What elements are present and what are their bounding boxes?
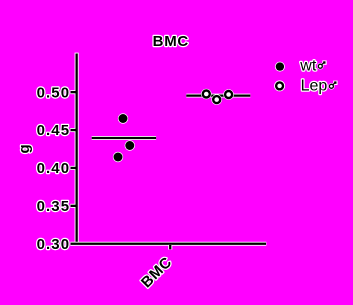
x-axis line bbox=[76, 242, 267, 246]
svg-text:0.40: 0.40 bbox=[37, 160, 71, 177]
y tick 0.40 bbox=[70, 166, 75, 170]
x tick label BMC bbox=[138, 254, 176, 292]
Lep mean line bbox=[186, 94, 250, 98]
svg-text:Lep: Lep bbox=[301, 78, 328, 95]
Lep point 3 bbox=[223, 89, 234, 100]
svg-text:0.30: 0.30 bbox=[37, 236, 71, 253]
y tick 0.30 bbox=[70, 242, 75, 246]
Lep point 2 bbox=[211, 94, 222, 105]
wt mean line bbox=[92, 136, 156, 140]
svg-text:0.50: 0.50 bbox=[37, 84, 71, 101]
y tick 0.50 bbox=[70, 90, 75, 94]
svg-text:0.45: 0.45 bbox=[37, 122, 71, 139]
wt point 2 bbox=[125, 140, 135, 150]
y label 0.50 bbox=[37, 84, 71, 101]
y tick 0.35 bbox=[70, 204, 75, 208]
y-axis line bbox=[75, 53, 79, 245]
legend Lep marker bbox=[274, 80, 285, 91]
Lep point 1 bbox=[201, 89, 212, 100]
legend Lep male symbol bbox=[328, 81, 337, 90]
title BMC bbox=[153, 33, 189, 50]
y tick 0.45 bbox=[70, 128, 75, 132]
y label 0.45 bbox=[37, 122, 71, 139]
svg-text:g: g bbox=[16, 144, 33, 154]
legend wt text bbox=[299, 58, 317, 75]
y label 0.35 bbox=[37, 198, 71, 215]
wt point 1 bbox=[118, 113, 128, 123]
y label 0.30 bbox=[37, 236, 71, 253]
legend wt marker bbox=[275, 62, 285, 72]
svg-text:wt: wt bbox=[299, 58, 317, 75]
svg-text:0.35: 0.35 bbox=[37, 198, 71, 215]
legend Lep text bbox=[301, 78, 328, 95]
x tick bbox=[168, 245, 172, 250]
legend wt male symbol bbox=[317, 60, 327, 69]
wt point 3 bbox=[113, 152, 123, 162]
svg-text:BMC: BMC bbox=[153, 33, 189, 50]
y label 0.40 bbox=[37, 160, 71, 177]
y axis title g bbox=[16, 144, 33, 154]
